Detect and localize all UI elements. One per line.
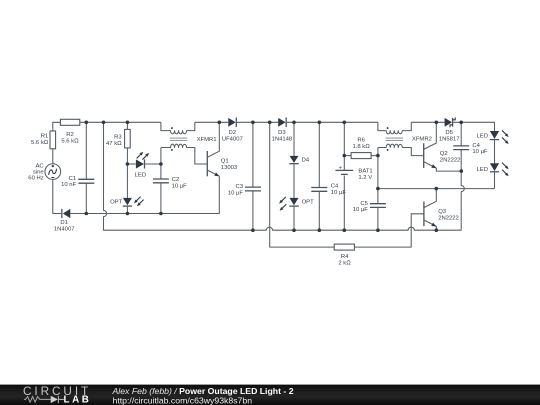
logo wire resistor [24,397,51,403]
svg-text:http://circuitlab.com/c63wy93k: http://circuitlab.com/c63wy93k8s7bn [113,395,253,405]
node dots R6 row [343,154,347,158]
wire R4 branch: top rail down, across R4, up to Q3 base [270,122,335,247]
LED D7 (bottom right) [490,163,499,188]
resistor R2 [60,119,79,125]
svg-text:10 µF: 10 µF [353,207,369,213]
resistor R3 [125,122,131,198]
diode D2 [228,118,236,128]
svg-text:UF4007: UF4007 [222,137,243,143]
LED D (left) [127,159,160,168]
battery BAT1 [335,122,353,230]
wire rail Q1 collector to D2 [195,121,229,123]
svg-text:LED: LED [477,133,488,139]
arrows out of LED bottom right [502,163,509,177]
transistor Q3 [424,189,437,231]
svg-text:Q3: Q3 [438,209,447,215]
wire top-left rail [53,122,61,131]
logo diode [51,396,58,403]
svg-text:1N4148: 1N4148 [272,137,293,143]
svg-text:R3: R3 [114,135,122,141]
svg-text:LED: LED [477,167,488,173]
svg-text:47 kΩ: 47 kΩ [106,141,122,147]
svg-text:Q2: Q2 [440,151,448,157]
transformer XFMR2 [378,122,424,155]
svg-text:C1: C1 [69,176,77,182]
svg-text:LED: LED [135,173,146,179]
svg-text:C3: C3 [235,184,243,190]
svg-text:OPT: OPT [110,200,123,206]
photodiode OPT (left) [123,198,132,214]
svg-text:5.6 kΩ: 5.6 kΩ [61,139,79,145]
svg-text:1N4007: 1N4007 [54,227,75,233]
diode D4 [289,122,298,163]
svg-text:R2: R2 [66,132,74,138]
node dots top rail [85,121,89,125]
svg-text:C4: C4 [331,184,339,190]
svg-text:D4: D4 [302,157,310,163]
svg-text:10 µF: 10 µF [472,149,488,155]
wire rail D3 to XFMR2 [287,121,378,123]
svg-text:LAB: LAB [64,395,92,405]
transformer XFMR1 [161,122,207,164]
capacitor C4 (right) [453,122,469,230]
capacitor C1 [78,122,94,213]
svg-text:D3: D3 [278,130,286,136]
node dots bottom rail [251,228,255,232]
svg-text:1N5817: 1N5817 [439,137,460,143]
arrows into OPT middle [279,197,286,211]
wire D1 row to Q1 emitter [70,176,219,213]
svg-text:BAT1: BAT1 [358,169,372,175]
transistor Q2 [424,122,462,171]
svg-text:OPT: OPT [302,200,315,206]
arrows out of LED left [137,152,150,160]
svg-text:10 µF: 10 µF [228,191,244,197]
arrows out of LED top right [502,130,509,144]
capacitor C3 [245,122,261,230]
svg-text:1.2 V: 1.2 V [358,175,372,181]
resistor R4 [334,244,354,250]
svg-text:10 µF: 10 µF [172,183,188,189]
wire rail D2 to D3 [236,121,278,123]
wire AC source to D1 row [53,180,61,214]
svg-text:10 nF: 10 nF [61,182,76,188]
node dots y188.6 row [376,187,380,191]
svg-text:C2: C2 [172,177,180,183]
capacitor C5 [370,204,386,231]
wire XFMR2 secondary-left down to C5 [377,148,379,204]
resistor R6 [344,153,378,159]
svg-text:1.8 kΩ: 1.8 kΩ [352,144,370,150]
wire D5 to LED chain top [453,122,495,131]
photodiode OPT (middle) [289,198,298,230]
svg-text:2 kΩ: 2 kΩ [338,261,351,267]
diode D5 (schottky) [445,117,456,127]
AC source V1 [45,164,61,180]
capacitor C2 [153,148,169,214]
wire rail R2 to XFMR1 [80,121,161,123]
wire R1 to AC source [52,149,54,164]
node dots D1 row [85,212,89,216]
svg-text:60 Hz: 60 Hz [28,175,43,181]
wire rail XFMR2 to D5 [411,121,444,123]
node dot Q2 emitter [460,169,464,173]
svg-text:D1: D1 [60,220,68,226]
capacitor C4 (middle) [311,122,327,230]
node dots LED row [126,162,130,166]
svg-text:2N2222: 2N2222 [440,158,461,164]
svg-text:D5: D5 [445,130,453,136]
resistor R1 [50,131,56,149]
svg-text:C5: C5 [360,201,368,207]
svg-text:Q1: Q1 [221,159,229,165]
arrows into OPT left [134,197,144,207]
svg-text:13003: 13003 [221,165,238,171]
wire node row y188.6 from C5 line to LED chain [378,188,495,190]
wire left vertical to bottom rail (hops D1 row) and bottom rail (hops at R4 and Q3 verticals) [104,122,462,230]
wire D4 to OPT middle [293,164,295,198]
transistor Q1 [207,122,219,176]
svg-text:R1: R1 [41,134,49,140]
wire R4 to Q3 base [354,214,424,247]
diode D1 [62,209,71,218]
LED D6 (top right) [490,131,499,163]
svg-text:XFMR2: XFMR2 [412,137,432,143]
svg-text:R6: R6 [357,138,365,144]
svg-text:2N2222: 2N2222 [438,215,459,221]
svg-text:XFMR1: XFMR1 [197,137,217,143]
svg-text:R4: R4 [341,254,349,260]
svg-text:D2: D2 [229,130,237,136]
svg-text:5.6 kΩ: 5.6 kΩ [31,140,49,146]
diode D3 [278,118,286,128]
svg-text:+: + [339,165,343,171]
